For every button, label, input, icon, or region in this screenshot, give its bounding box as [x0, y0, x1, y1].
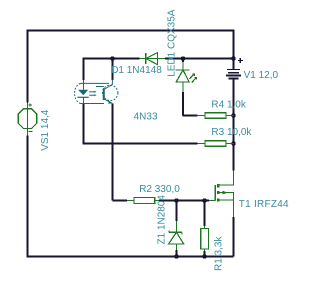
svg-text:VS1 14,4: VS1 14,4	[40, 109, 51, 151]
svg-text:T1 IRFZ44: T1 IRFZ44	[239, 199, 289, 210]
svg-text:4N33: 4N33	[134, 111, 158, 122]
svg-text:R1 3,3k: R1 3,3k	[214, 236, 225, 271]
svg-text:R4 1,0k: R4 1,0k	[211, 99, 246, 110]
svg-text:LED1 CQX35A: LED1 CQX35A	[166, 9, 177, 77]
svg-text:V1 12,0: V1 12,0	[244, 70, 279, 81]
svg-text:R3 10,0k: R3 10,0k	[211, 127, 252, 138]
svg-text:D1 1N4148: D1 1N4148	[111, 65, 162, 76]
svg-text:Z1 1N2804: Z1 1N2804	[157, 195, 168, 245]
svg-text:R2 330,0: R2 330,0	[139, 184, 180, 195]
